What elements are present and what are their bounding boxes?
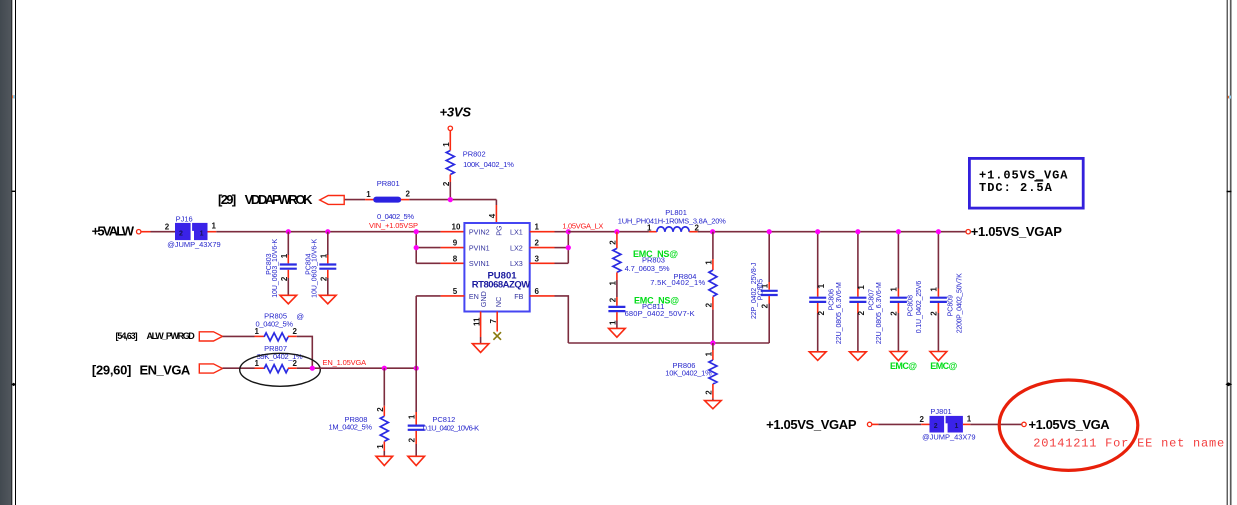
no-connect X on pin7 <box>493 332 501 340</box>
ground under PC812 <box>408 456 425 465</box>
capacitor PC811 <box>608 297 625 328</box>
svg-text:5: 5 <box>453 287 458 296</box>
svg-text:1: 1 <box>967 415 972 424</box>
svg-text:2: 2 <box>930 311 939 316</box>
svg-text:EN_1.05VGA: EN_1.05VGA <box>323 358 367 367</box>
svg-text:2: 2 <box>761 303 770 308</box>
wire PR805 to EN node corner <box>288 336 312 368</box>
svg-text:PJ16: PJ16 <box>176 214 193 223</box>
terminal +5VALW <box>137 230 141 234</box>
svg-text:3: 3 <box>535 254 540 263</box>
svg-text:0_0402_5%: 0_0402_5% <box>256 320 294 329</box>
svg-text:1: 1 <box>704 260 713 265</box>
wire VDDAPWROK horizontal <box>344 199 365 201</box>
svg-text:8: 8 <box>453 254 458 263</box>
svg-text:10K_0402_1%: 10K_0402_1% <box>665 369 712 378</box>
svg-text:2: 2 <box>406 189 411 198</box>
svg-text:TDC: 2.5A: TDC: 2.5A <box>979 181 1053 195</box>
ground under PC803 <box>280 295 297 304</box>
svg-text:22U_0805_6.3V6-M: 22U_0805_6.3V6-M <box>836 282 843 344</box>
svg-text:PVIN1: PVIN1 <box>469 243 490 252</box>
junction dot FB/PR804/PR806 <box>710 340 715 345</box>
node +3VS terminal <box>448 126 452 130</box>
svg-text:680P_0402_50V7-K: 680P_0402_50V7-K <box>625 309 695 318</box>
svg-text:GND: GND <box>479 291 488 307</box>
wire pin2 LX2 <box>530 247 569 249</box>
wire LX to inductor <box>568 231 657 233</box>
svg-text:VIN_+1.05VSP: VIN_+1.05VSP <box>369 221 418 230</box>
ground under PC807 <box>850 352 867 361</box>
wire pin8 <box>416 262 464 264</box>
right border zone tick <box>1227 191 1232 193</box>
svg-text:4: 4 <box>488 213 497 218</box>
terminal +1.05VS_VGA <box>1022 422 1026 426</box>
svg-text:9: 9 <box>453 239 458 248</box>
wire PR801 to PU801 pin4 corner <box>409 199 496 201</box>
svg-text:2: 2 <box>704 390 713 395</box>
svg-text:PC806: PC806 <box>828 289 835 311</box>
junction dot PR803 tap <box>614 229 619 234</box>
offpage arrow ALW_PWRGD (points right) <box>199 332 222 341</box>
wire EN pin5 <box>416 295 464 297</box>
svg-text:PC805: PC805 <box>757 279 764 301</box>
svg-text:LX2: LX2 <box>510 243 523 252</box>
left border center arrow <box>11 383 16 386</box>
svg-text:1: 1 <box>212 222 217 231</box>
wire pin9 <box>416 247 464 249</box>
svg-text:NC: NC <box>494 297 503 307</box>
resistor PR801 (0 ohm solid body) <box>365 197 409 203</box>
capacitor PC803 <box>280 232 297 296</box>
junction dot rail/PC807 <box>855 229 860 234</box>
capacitor PC807 <box>849 232 866 352</box>
wire pin3 LX3 <box>530 262 569 264</box>
svg-text:PR802: PR802 <box>463 150 486 159</box>
svg-text:4.7_0603_5%: 4.7_0603_5% <box>625 264 670 273</box>
svg-text:2: 2 <box>608 240 617 245</box>
svg-text:RT8068AZQW: RT8068AZQW <box>472 279 530 290</box>
wire PJ16 to PU801 pin10 <box>208 231 465 233</box>
inductor PL801 <box>657 227 689 232</box>
svg-text:@JUMP_43X79: @JUMP_43X79 <box>167 240 221 249</box>
svg-text:@: @ <box>296 312 304 321</box>
svg-text:+1.05VS_VGA: +1.05VS_VGA <box>1029 417 1111 432</box>
svg-text:2200P_0402_50V7K: 2200P_0402_50V7K <box>956 273 963 333</box>
wire EN up to pin5 <box>415 296 417 368</box>
wire pin4 vertical <box>495 200 497 223</box>
junction dot rail/branch <box>414 229 419 234</box>
resistor PR808 vertical <box>380 368 388 456</box>
svg-text:10U_0603_10V6-K: 10U_0603_10V6-K <box>312 238 319 297</box>
svg-text:1: 1 <box>857 285 866 290</box>
capacitor PC804 <box>319 232 336 296</box>
svg-text:0_0402_5%: 0_0402_5% <box>377 212 414 221</box>
svg-text:2: 2 <box>376 407 385 412</box>
wire branch vertical to pins 9,8 <box>415 232 417 264</box>
ground under PC811 <box>609 328 626 337</box>
offpage arrow EN_VGA (points right) <box>199 364 222 373</box>
svg-text:1.05VGA_LX: 1.05VGA_LX <box>562 221 603 230</box>
junction dot rail/PC808 <box>896 229 901 234</box>
svg-text:22P_0402_25V8-J: 22P_0402_25V8-J <box>751 263 758 319</box>
junction dot EN/PC812 <box>414 366 419 371</box>
svg-text:PC808: PC808 <box>908 295 915 317</box>
svg-text:2: 2 <box>408 437 417 442</box>
capacitor PC808 <box>890 232 907 352</box>
svg-text:EMC@: EMC@ <box>890 361 917 371</box>
svg-text:10: 10 <box>452 223 461 232</box>
junction dot EN/PR808 <box>382 366 387 371</box>
junction dot rail/PC805 <box>767 229 772 234</box>
terminal +1.05VS_VGAP bottom <box>867 422 871 426</box>
ground under PC804 <box>320 295 337 304</box>
svg-text:2: 2 <box>817 310 826 315</box>
svg-text:2: 2 <box>934 423 938 430</box>
svg-text:1: 1 <box>408 414 417 419</box>
wire FB bottom rail <box>568 342 769 344</box>
wire ALW_PWRGD to PR805 <box>223 335 265 337</box>
right border small marks <box>1228 96 1231 99</box>
junction dot rail/PC803 <box>286 229 291 234</box>
svg-text:EMC@: EMC@ <box>930 361 957 371</box>
junction dot EN/PR805 <box>310 366 315 371</box>
svg-text:PR801: PR801 <box>377 179 400 188</box>
svg-text:0.1U_0402_25V6: 0.1U_0402_25V6 <box>916 281 923 334</box>
resistor PR806 vertical <box>709 343 717 401</box>
wire +3VS to PR802 pin1 <box>449 131 451 151</box>
wire FB pin6 <box>530 296 569 343</box>
svg-text:1: 1 <box>280 253 289 258</box>
svg-text:1M_0402_5%: 1M_0402_5% <box>329 423 373 432</box>
svg-text:SVIN1: SVIN1 <box>469 259 490 268</box>
wire EN_VGA to PR807 <box>223 367 265 369</box>
svg-text:1: 1 <box>376 444 385 449</box>
svg-text:1: 1 <box>535 223 540 232</box>
svg-text:[54,63]: [54,63] <box>116 331 138 341</box>
svg-text:1: 1 <box>319 253 328 258</box>
svg-text:1: 1 <box>200 231 204 238</box>
junction dot LX1 <box>566 229 571 234</box>
svg-text:2: 2 <box>608 297 617 302</box>
svg-text:LX3: LX3 <box>510 259 523 268</box>
wire VGAP to PJ801 <box>872 423 930 425</box>
highlight ellipse around PR807 <box>240 353 321 386</box>
svg-text:100K_0402_1%: 100K_0402_1% <box>463 160 514 169</box>
resistor PR804 vertical <box>709 232 717 343</box>
op chip PU801 body <box>464 223 529 312</box>
ground under pin11 <box>472 344 489 353</box>
svg-text:EN_VGA: EN_VGA <box>140 363 191 378</box>
svg-text:2: 2 <box>293 327 298 336</box>
ground under PR806 <box>705 401 722 409</box>
red highlight ellipse <box>999 380 1138 470</box>
svg-text:0.1U_0402_10V6-K: 0.1U_0402_10V6-K <box>423 423 479 432</box>
ground under PC806 <box>809 352 826 361</box>
svg-text:1: 1 <box>608 320 617 325</box>
ground under PR808 <box>376 456 393 465</box>
svg-text:[29,60]: [29,60] <box>92 363 131 378</box>
svg-text:+1.05VS_VGAP: +1.05VS_VGAP <box>971 224 1063 239</box>
resistor PR802 <box>446 151 454 175</box>
overbar on 5 <box>1034 180 1043 182</box>
svg-text:ALW_PWRGD: ALW_PWRGD <box>147 331 196 341</box>
svg-text:1: 1 <box>366 190 371 199</box>
wire +5VALW to PJ16 <box>141 231 175 233</box>
jumper PJ16 <box>175 223 208 240</box>
left border zone tick <box>12 190 16 192</box>
resistor PR805 <box>264 333 288 341</box>
wire PJ801 to +1.05VS_VGA terminal <box>963 423 1022 425</box>
page border left strip <box>0 0 16 505</box>
right border center arrow <box>1225 382 1232 386</box>
svg-text:1: 1 <box>704 351 713 356</box>
wire GND pin11 <box>480 312 482 344</box>
jumper PJ801 <box>930 416 963 433</box>
svg-text:PC807: PC807 <box>869 289 876 311</box>
svg-text:1: 1 <box>442 142 451 147</box>
svg-text:2: 2 <box>857 310 866 315</box>
svg-text:1: 1 <box>890 287 899 292</box>
junction dot rail/PC809 <box>936 229 941 234</box>
svg-text:2: 2 <box>535 239 540 248</box>
svg-text:2: 2 <box>165 222 170 231</box>
svg-text:7.5K_0402_1%: 7.5K_0402_1% <box>650 278 705 287</box>
resistor PR807 <box>264 365 288 373</box>
svg-text:2: 2 <box>280 276 289 281</box>
offpage arrow VDDAPWROK (points left) <box>320 196 345 205</box>
svg-text:10U_0603_10V6-K: 10U_0603_10V6-K <box>272 238 279 297</box>
svg-text:VDDAPWROK: VDDAPWROK <box>245 192 314 207</box>
TDC info box <box>969 158 1083 208</box>
terminal +1.05VS_VGAP out <box>966 230 970 234</box>
capacitor PC812 <box>408 368 425 456</box>
svg-text:1: 1 <box>608 281 617 286</box>
left border small marks <box>12 95 15 98</box>
svg-text:PC809: PC809 <box>948 295 955 317</box>
wire pin1 LX1 <box>530 231 569 233</box>
svg-text:PVIN2: PVIN2 <box>469 227 490 236</box>
wire NC pin7 <box>496 312 498 332</box>
svg-text:6: 6 <box>535 287 540 296</box>
svg-text:2: 2 <box>179 231 183 238</box>
svg-text:1: 1 <box>955 423 959 430</box>
junction dot branch pin9 <box>414 245 419 250</box>
junction dot PR802/PR801 node <box>448 197 453 202</box>
svg-text:22U_0805_6.3V6-M: 22U_0805_6.3V6-M <box>876 282 883 344</box>
svg-text:+5VALW: +5VALW <box>92 224 135 239</box>
svg-text:+1.05VS_VGAP: +1.05VS_VGAP <box>766 417 857 432</box>
ground under PC809 <box>930 352 947 361</box>
svg-text:2: 2 <box>890 311 899 316</box>
junction dot rail/PC804 <box>325 229 330 234</box>
junction dot rail/PC806 <box>815 229 820 234</box>
capacitor PC806 <box>809 232 826 352</box>
svg-text:EN: EN <box>469 292 479 301</box>
page border right lines <box>1227 0 1231 505</box>
svg-text:2: 2 <box>442 181 451 186</box>
svg-text:PJ801: PJ801 <box>930 407 951 416</box>
svg-text:2: 2 <box>319 276 328 281</box>
svg-text:@JUMP_43X79: @JUMP_43X79 <box>922 433 976 442</box>
capacitor PC809 <box>930 232 947 352</box>
svg-text:2: 2 <box>704 302 713 307</box>
junction dot PL801 out <box>710 229 715 234</box>
svg-text:1UH_PH041H-1R0MS_3.8A_20%: 1UH_PH041H-1R0MS_3.8A_20% <box>618 216 726 225</box>
wire LX vertical bus <box>567 232 569 264</box>
capacitor PC805 <box>761 232 778 343</box>
junction dot LX2 <box>566 245 571 250</box>
resistor PR803 vertical <box>613 232 621 297</box>
svg-text:2: 2 <box>920 415 925 424</box>
svg-text:+3VS: +3VS <box>440 105 472 120</box>
wire PR802 pin2 to junction <box>449 175 451 183</box>
svg-text:LX1: LX1 <box>510 227 523 236</box>
svg-text:1: 1 <box>930 287 939 292</box>
svg-text:FB: FB <box>514 292 523 301</box>
svg-text:[29]: [29] <box>218 192 236 207</box>
svg-text:PG: PG <box>495 225 504 236</box>
wire inductor to output rail <box>689 231 966 233</box>
ground under PC808 <box>890 352 907 361</box>
svg-text:1: 1 <box>817 283 826 288</box>
wire EN rail <box>288 367 416 369</box>
